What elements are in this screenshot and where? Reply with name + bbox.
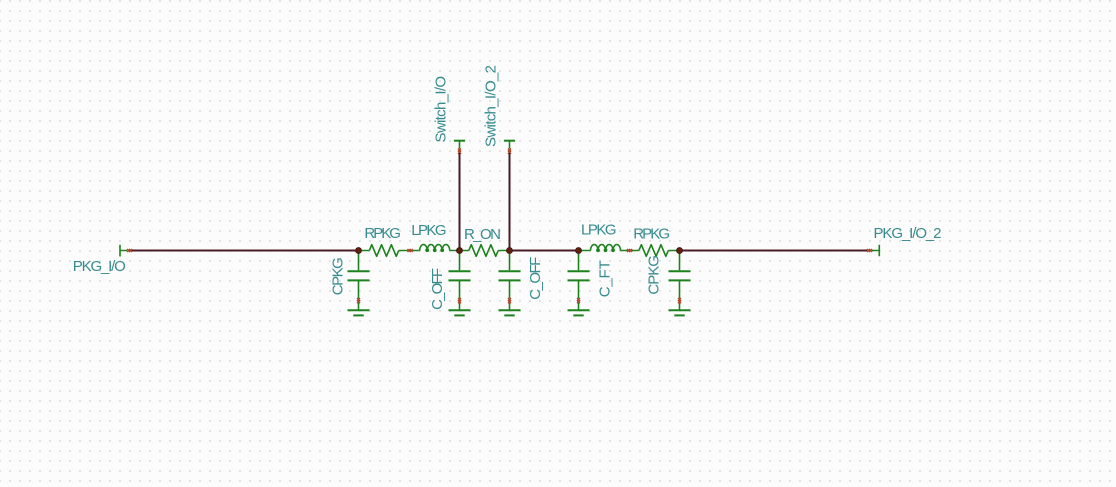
svg-text:RPKG: RPKG [633,226,670,243]
svg-text:PKG_I/O: PKG_I/O [73,258,126,275]
svg-text:RPKG: RPKG [364,225,401,242]
svg-text:LPKG: LPKG [581,222,617,239]
svg-text:CPKG: CPKG [646,255,663,295]
svg-text:C_OFF: C_OFF [429,268,446,310]
svg-text:C_FT: C_FT [597,260,614,297]
svg-text:C_OFF: C_OFF [527,257,544,300]
svg-text:CPKG: CPKG [330,257,347,295]
svg-text:PKG_I/O_2: PKG_I/O_2 [874,225,942,242]
svg-text:R_ON: R_ON [464,226,501,243]
svg-text:Switch_I/O: Switch_I/O [433,76,450,143]
svg-text:LPKG: LPKG [411,222,446,239]
svg-text:Switch_I/O_2: Switch_I/O_2 [483,65,500,147]
